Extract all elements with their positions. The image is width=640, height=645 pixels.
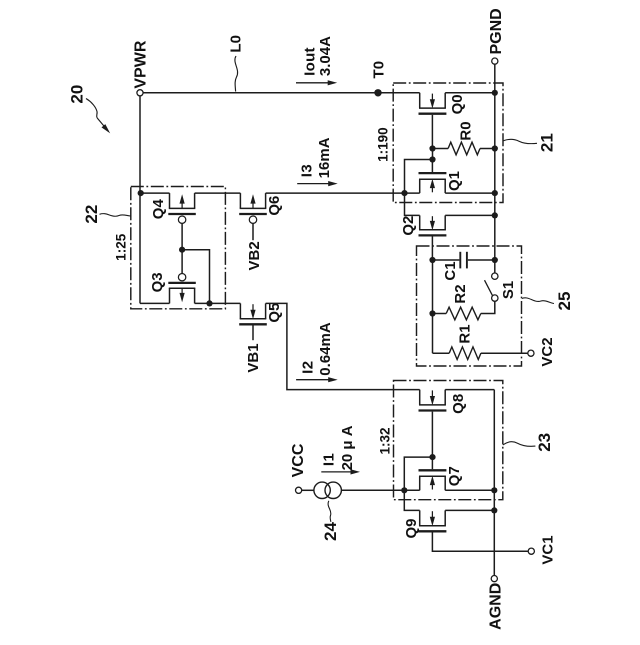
svg-text:Q4: Q4 bbox=[150, 199, 167, 220]
wire block22 bottom rail segment a bbox=[140, 302, 170, 304]
wire VCC to current source bbox=[302, 489, 314, 491]
svg-text:VCC: VCC bbox=[290, 443, 307, 477]
svg-text:Q9: Q9 bbox=[403, 518, 420, 538]
junction dot mirror rail/right rail bbox=[492, 190, 498, 196]
svg-text:AGND: AGND bbox=[488, 583, 505, 630]
svg-text:R1: R1 bbox=[457, 324, 474, 343]
junction dot Q7/Q8 gate node bbox=[429, 454, 435, 460]
leader squiggle for 23 bbox=[503, 442, 536, 447]
svg-text:Q2: Q2 bbox=[400, 216, 417, 236]
block 21 dash-dot box bbox=[393, 83, 503, 203]
svg-text:VB1: VB1 bbox=[245, 343, 262, 372]
svg-text:I3: I3 bbox=[299, 164, 316, 178]
junction dot main/PGND bbox=[492, 90, 498, 96]
net PGND terminal bbox=[492, 58, 498, 64]
wire mirror rail Q6 to Q1 bbox=[266, 192, 420, 194]
svg-text:16mA: 16mA bbox=[316, 137, 333, 178]
svg-text:Q1: Q1 bbox=[446, 171, 463, 191]
current I3 arrow bbox=[297, 181, 338, 186]
svg-text:I2: I2 bbox=[300, 360, 317, 374]
transistor Q9 (NMOS) bbox=[419, 510, 447, 531]
current I1 arrow bbox=[321, 469, 360, 474]
block 23 dash-dot box bbox=[394, 381, 503, 500]
svg-text:T0: T0 bbox=[371, 61, 388, 79]
wire Q8 gate down to node bbox=[431, 412, 433, 458]
junction dot Q4/Q3 gate node bbox=[179, 247, 185, 253]
wire Q3 gate from node bbox=[181, 250, 183, 274]
junction dot Q9 rail/right rail bbox=[491, 507, 497, 513]
svg-text:Q7: Q7 bbox=[446, 466, 463, 486]
wire Q5 gate to VB1 bbox=[252, 325, 254, 340]
wire VPWR stem down to block 22 bbox=[139, 96, 141, 193]
leader squiggle for 24 bbox=[328, 501, 331, 522]
wire R0 node to Q1 gate node bbox=[432, 149, 434, 160]
wire mirror rail segment b (Q4 to Q6) bbox=[195, 192, 241, 194]
wire gate node branch right bbox=[182, 250, 209, 304]
wire Q5 drain to I2 route bbox=[266, 303, 420, 389]
transistor Q6 (PMOS cascode) bbox=[239, 193, 267, 223]
wire PGND stem bbox=[494, 64, 496, 92]
leader squiggle for 22 bbox=[100, 214, 131, 217]
svg-text:1:190: 1:190 bbox=[376, 127, 391, 162]
transistor Q8 (NMOS) bbox=[419, 390, 447, 411]
junction dot C1 right bbox=[492, 257, 498, 263]
svg-text:Q5: Q5 bbox=[266, 303, 283, 323]
wire bypass down to Q9 rail bbox=[404, 490, 419, 510]
net VC2 terminal bbox=[528, 350, 534, 356]
wire bypass block21 bbox=[405, 160, 433, 194]
leader arrow for label 20 bbox=[86, 99, 97, 119]
svg-text:C1: C1 bbox=[442, 261, 459, 280]
junction dot Q2 rail/right rail bbox=[492, 212, 498, 218]
svg-text:20 μ A: 20 μ A bbox=[339, 425, 356, 470]
svg-text:25: 25 bbox=[555, 292, 574, 311]
current I2 arrow bbox=[296, 377, 338, 382]
svg-text:23: 23 bbox=[535, 433, 554, 452]
leader squiggle for 21 bbox=[503, 139, 537, 143]
capacitor C1 leads bbox=[433, 259, 460, 261]
wire bypass block23 bbox=[404, 457, 432, 490]
wire main rail VPWR to Q0 drain (L0) bbox=[143, 92, 420, 94]
junction dot VPWR/mirror rail bbox=[138, 190, 144, 196]
svg-text:VC2: VC2 bbox=[539, 337, 556, 366]
resistor R2 bbox=[446, 307, 481, 320]
svg-text:R0: R0 bbox=[457, 121, 474, 140]
junction dot R2 left bbox=[429, 310, 435, 316]
wire bypass down to Q2 rail bbox=[405, 193, 420, 215]
resistor R1 bbox=[449, 347, 481, 360]
transistor Q1 (NMOS sense) bbox=[419, 173, 447, 193]
junction dot bypass/mirror rail bbox=[401, 190, 407, 196]
junction dot C1 left bbox=[429, 257, 435, 263]
current Iout arrow bbox=[296, 80, 337, 85]
svg-text:Q3: Q3 bbox=[149, 272, 166, 292]
svg-text:S1: S1 bbox=[500, 281, 517, 299]
transistor Q2 (NMOS) bbox=[419, 215, 447, 235]
wire Q1 gate up to node bbox=[431, 160, 433, 173]
junction dot bypass23/bottom rail bbox=[401, 487, 407, 493]
svg-text:3.04A: 3.04A bbox=[317, 36, 334, 76]
net VPWR terminal bbox=[137, 90, 143, 96]
svg-text:R2: R2 bbox=[452, 284, 469, 303]
wire right rail block23 bbox=[493, 390, 495, 576]
svg-text:L0: L0 bbox=[228, 35, 245, 53]
resistor R0 leads bbox=[433, 148, 449, 150]
switch S1 bottom contact bbox=[492, 295, 498, 301]
leader squiggle for L0 bbox=[235, 56, 238, 92]
junction dot Q1 gate node bbox=[429, 156, 435, 162]
capacitor C1 plates bbox=[459, 252, 461, 269]
svg-text:20: 20 bbox=[68, 85, 87, 104]
wire R1 left lead bbox=[433, 352, 450, 354]
wire Q4 gate to mirror node bbox=[181, 223, 183, 249]
wire Q6 gate to VB2 bbox=[252, 223, 254, 240]
wire Q2 gate down into block 25 bbox=[431, 237, 433, 261]
junction dot bottom rail/right rail bbox=[491, 487, 497, 493]
resistor R0 bbox=[448, 142, 480, 155]
svg-text:VC1: VC1 bbox=[540, 535, 557, 564]
transistor Q5 (NMOS) bbox=[239, 303, 267, 324]
svg-text:VPWR: VPWR bbox=[132, 40, 149, 88]
wire mirror rail Q1 source to right rail bbox=[445, 192, 495, 194]
svg-text:I1: I1 bbox=[321, 453, 338, 467]
wire bottom rail Q7 source to right rail bbox=[445, 489, 494, 491]
svg-text:22: 22 bbox=[82, 205, 101, 224]
wire Q9 source to right rail bbox=[445, 509, 494, 511]
wire block22 bottom rail segment b bbox=[195, 302, 241, 304]
switch S1 top contact bbox=[492, 273, 498, 279]
svg-text:0.64mA: 0.64mA bbox=[317, 322, 334, 376]
switch S1 lever bbox=[485, 280, 493, 296]
svg-text:Q0: Q0 bbox=[449, 94, 466, 114]
svg-text:PGND: PGND bbox=[488, 8, 505, 54]
svg-text:VB2: VB2 bbox=[246, 241, 263, 270]
resistor R1 right lead to VC2 bbox=[481, 352, 528, 354]
transistor Q0 (NMOS power) bbox=[419, 93, 447, 114]
wire main rail Q0 source to PGND rail bbox=[445, 92, 495, 94]
net AGND terminal bbox=[491, 576, 497, 582]
wire Q8 source to right rail bbox=[445, 389, 494, 391]
svg-text:Q8: Q8 bbox=[450, 394, 467, 414]
transistor Q3 (PMOS diode-connected) bbox=[168, 274, 196, 304]
wire Q9 gate to VC1 bbox=[432, 532, 528, 551]
svg-text:Q6: Q6 bbox=[266, 196, 283, 216]
wire block22 left vertical bbox=[139, 193, 141, 303]
wire Q7 gate up to node bbox=[431, 457, 433, 469]
wire Q2 source to right rail bbox=[445, 214, 495, 216]
wire mirror rail segment a bbox=[141, 192, 170, 194]
block 22 dash-dot box bbox=[131, 187, 226, 309]
leader squiggle for 25 bbox=[522, 298, 554, 304]
current source 24 symbol bbox=[314, 482, 330, 498]
wire current source to block 23 bbox=[341, 489, 419, 491]
junction dot R0 left bbox=[429, 145, 435, 151]
svg-text:1:25: 1:25 bbox=[114, 233, 129, 261]
wire S1 bottom to R2 bbox=[481, 301, 495, 313]
block 25 dash-dot box bbox=[417, 246, 522, 366]
svg-text:21: 21 bbox=[538, 133, 557, 152]
net VC1 terminal bbox=[528, 548, 534, 554]
node T0 junction dot bbox=[374, 89, 381, 96]
svg-text:1:32: 1:32 bbox=[377, 427, 392, 454]
transistor Q4 (PMOS) bbox=[168, 193, 196, 223]
resistor R2 left lead bbox=[433, 313, 447, 315]
svg-text:24: 24 bbox=[321, 522, 340, 541]
wire Q0 gate down to R0 node bbox=[431, 115, 433, 149]
wire block25 left vertical (Q2 gate net) bbox=[432, 260, 434, 353]
transistor Q7 (NMOS diode-connected) bbox=[419, 470, 447, 490]
wire right rail block21 bbox=[494, 93, 496, 260]
junction dot R0 right bbox=[492, 145, 498, 151]
wire S1 top stem bbox=[494, 260, 496, 273]
junction dot branch/bottom rail bbox=[206, 300, 212, 306]
net VCC terminal bbox=[296, 487, 302, 493]
